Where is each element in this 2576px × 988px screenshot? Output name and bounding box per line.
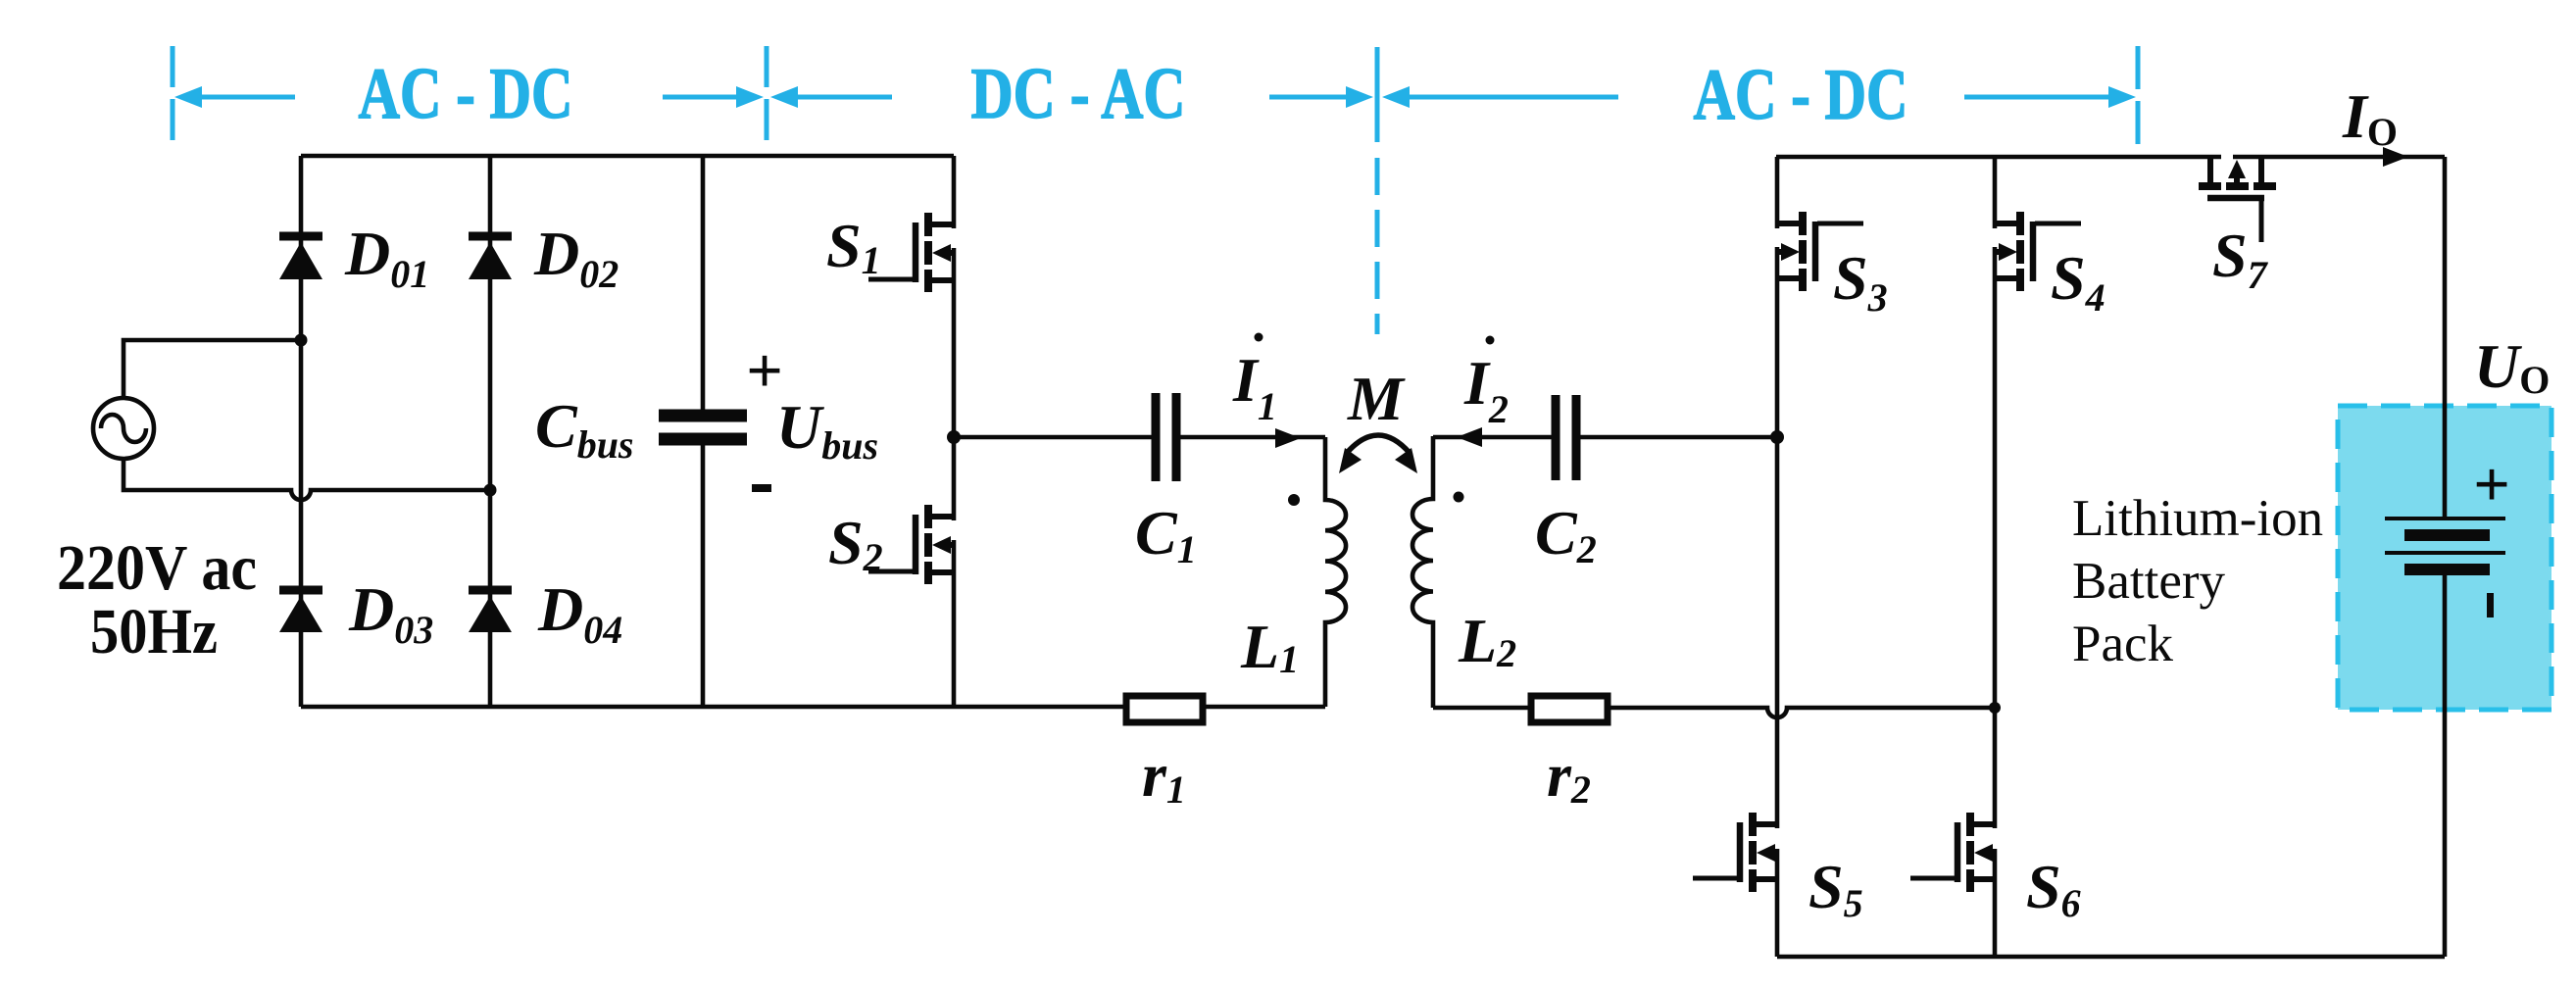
node half-bridge output (947, 430, 961, 444)
dimension arrow right of DC-AC section (1269, 86, 1373, 108)
wire leg D01 D03 (299, 156, 304, 707)
dimension tick center (765, 46, 769, 142)
mutual coupling M (1339, 435, 1417, 473)
transistor S7 (2199, 157, 2276, 242)
label Lithium-ion Battery Pack (2072, 490, 2323, 672)
dimension arrow left of DC-AC section (770, 86, 892, 108)
node AC bottom junction (484, 484, 497, 497)
dimension tick right (2136, 46, 2141, 145)
svg-text:M: M (1347, 364, 1406, 433)
diode D01 (279, 236, 322, 279)
capacitor C2 (1556, 395, 1576, 480)
polarity dot L2 (1454, 492, 1464, 503)
svg-text:Lithium-ion: Lithium-ion (2072, 490, 2323, 547)
wire output node to C1 (954, 435, 1325, 440)
node r2 to leg junction (1989, 702, 2001, 714)
current arrow Io (2383, 147, 2408, 167)
svg-text:220V ac: 220V ac (57, 532, 257, 604)
wire AC source to bridge top (124, 340, 299, 398)
transistor S2 (868, 505, 954, 584)
wire L2 to C2 to bridge (1433, 435, 1777, 440)
wire top rail left section (301, 154, 954, 159)
dimension arrow right of AC-DC section 1 (663, 86, 764, 108)
dimension arrow left of AC-DC section 1 (174, 86, 295, 108)
diode D03 (279, 590, 322, 632)
wire leg S4 S6 (1993, 157, 1998, 957)
inductor L1 (1325, 437, 1346, 707)
svg-text:+: + (2473, 449, 2510, 520)
transistor S1 (868, 213, 954, 292)
node AC top junction (295, 334, 308, 347)
node C2 to leg junction (1770, 430, 1784, 444)
battery cell plates (2385, 519, 2505, 569)
wire bottom rail right section (1777, 955, 2445, 960)
transistor S6 (1910, 813, 1995, 892)
svg-text:Battery: Battery (2072, 553, 2225, 610)
wire half-bridge leg S1 S2 (952, 156, 957, 707)
wire leg S3 S5 (1775, 157, 1780, 957)
svg-text:50Hz: 50Hz (90, 596, 218, 667)
transistor S4 (1995, 212, 2081, 291)
wire battery branch right side (2443, 157, 2448, 957)
label I1 (1232, 333, 1277, 429)
dimension arrow left of AC-DC section 2 (1382, 86, 1618, 108)
diode D02 (469, 236, 512, 279)
label minus Ubus (752, 484, 771, 492)
wire L2 bottom to bridge with hop (1433, 708, 1995, 717)
polarity dot L1 (1288, 494, 1300, 506)
svg-text:DC - AC: DC - AC (971, 54, 1186, 134)
capacitor C1 (1156, 393, 1176, 481)
wire leg Cbus (701, 156, 706, 707)
dimension arrow right of AC-DC section 2 (1964, 86, 2136, 108)
wire AC source to bridge bottom with hop (124, 459, 488, 500)
diode D04 (469, 590, 512, 632)
battery pack box (2338, 406, 2551, 710)
capacitor Cbus (659, 416, 747, 439)
resistor r1 (1126, 696, 1203, 722)
inductor L2 (1412, 436, 1433, 708)
section divider dashed line (1375, 47, 1380, 142)
current arrow I2 (1457, 427, 1482, 447)
transistor S3 (1777, 212, 1863, 291)
svg-text:AC - DC: AC - DC (359, 54, 573, 134)
resistor r2 (1531, 696, 1608, 722)
dimension tick left (171, 46, 175, 142)
wire leg D02 D04 (488, 156, 493, 707)
label I2 (1463, 336, 1509, 432)
svg-text:Pack: Pack (2072, 616, 2174, 672)
transistor S5 (1693, 813, 1777, 892)
wire top rail right section (1776, 155, 2445, 160)
AC source (93, 398, 154, 459)
svg-text:AC - DC: AC - DC (1694, 55, 1908, 135)
current arrow I1 (1275, 428, 1301, 448)
wire bottom rail left section (301, 705, 1325, 710)
label minus battery (2487, 593, 2494, 617)
